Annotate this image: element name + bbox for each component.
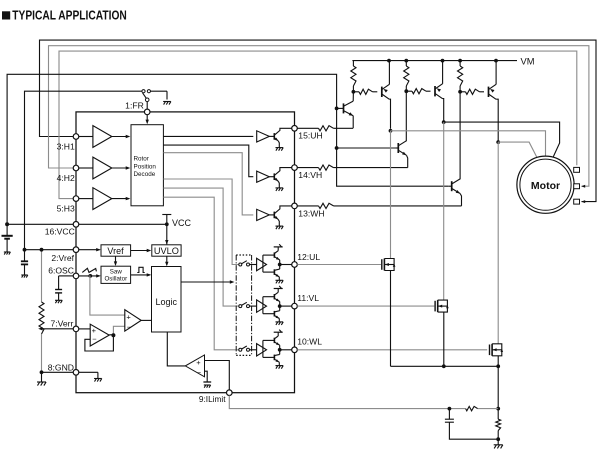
junction sense top xyxy=(496,407,500,411)
wire decode to WH driver xyxy=(163,153,253,215)
junction VL source xyxy=(442,364,446,368)
wire V phase down xyxy=(443,122,445,300)
buffer VL xyxy=(250,300,267,312)
svg-text:3:H1: 3:H1 xyxy=(57,141,75,151)
transistor Q-U-PNP xyxy=(382,61,391,129)
block UVLO xyxy=(131,245,182,256)
wire error amp to PWM xyxy=(113,326,124,335)
svg-text:14:VH: 14:VH xyxy=(298,170,322,180)
wire UL gate xyxy=(297,264,381,266)
transistor M-VL xyxy=(435,300,449,366)
op-amp PWM comparator xyxy=(125,310,152,332)
node U phase xyxy=(389,129,393,133)
transistor Q-U-NPN xyxy=(337,92,354,129)
svg-text:13:WH: 13:WH xyxy=(298,208,324,218)
node V phase xyxy=(442,120,446,124)
svg-text:11:VL: 11:VL xyxy=(297,293,319,303)
resistor R-sense xyxy=(496,409,501,445)
wire VCC bias tap V xyxy=(337,147,396,149)
switch S-FR xyxy=(142,90,167,110)
svg-text:12:UL: 12:UL xyxy=(297,252,320,262)
junction error amp out xyxy=(111,333,115,337)
svg-text:VM: VM xyxy=(521,56,535,66)
svg-text:8:GND: 8:GND xyxy=(48,362,74,372)
transistor pair WL driver xyxy=(263,330,292,369)
buffer UL xyxy=(250,258,267,270)
svg-text:4:H2: 4:H2 xyxy=(57,173,75,183)
capacitor C-filter xyxy=(445,409,498,440)
wire pin16 internal xyxy=(79,223,167,225)
resistor R-pullup-U xyxy=(351,61,356,92)
transistor pair VL driver xyxy=(263,286,292,325)
junction filter xyxy=(448,407,452,411)
svg-text:Vref: Vref xyxy=(107,246,124,256)
svg-text:9:ILimit: 9:ILimit xyxy=(199,394,226,404)
sawtooth icon at OSC xyxy=(82,268,96,272)
wire OSC pin to saw xyxy=(79,274,101,277)
wire 13:WH to QW xyxy=(297,203,461,208)
wire Vref to Saw xyxy=(114,256,117,266)
svg-text:−: − xyxy=(127,322,132,331)
resistor R-pullup-W xyxy=(458,61,463,92)
wire U phase down xyxy=(390,131,392,259)
wire VCC to UVLO arrow xyxy=(165,240,168,245)
wire FR to decoder xyxy=(146,115,149,125)
svg-text:TYPICAL APPLICATION: TYPICAL APPLICATION xyxy=(12,8,127,23)
switch S-UL xyxy=(239,261,250,266)
title block xyxy=(2,8,127,23)
op-amp A3 xyxy=(79,188,131,210)
pin 10:WL xyxy=(292,336,323,352)
transistor M-WL xyxy=(490,344,504,367)
svg-text:Saw: Saw xyxy=(110,268,123,275)
pin 6:OSC xyxy=(48,265,79,278)
svg-text:Motor: Motor xyxy=(531,180,560,192)
switch S-WL xyxy=(239,346,250,351)
wire error amp feedback xyxy=(85,335,114,351)
svg-text:7:Verr: 7:Verr xyxy=(50,318,73,328)
wire 14:VH to QV xyxy=(297,165,407,170)
node W phase xyxy=(496,140,500,144)
wire OSC to PWM comparator xyxy=(90,276,125,315)
wire GND pin to pot xyxy=(42,371,74,373)
pin 3:H1 xyxy=(57,134,79,152)
wire source bus xyxy=(391,365,499,367)
ground sense xyxy=(494,445,503,449)
transistor Q-V-PNP xyxy=(435,61,444,122)
wire decode to UL switch xyxy=(163,179,238,265)
svg-text:−: − xyxy=(197,368,202,377)
wire saw to logic xyxy=(131,273,152,276)
wire H2 feedback net xyxy=(49,46,589,188)
transistor Q-W-PNP xyxy=(489,61,499,142)
junction V predrive xyxy=(404,89,408,93)
wire W phase to motor xyxy=(498,142,538,160)
level shift box (dash-dot) xyxy=(236,255,251,355)
junction VCC internal xyxy=(165,222,169,226)
op-amp error amp xyxy=(79,324,109,346)
wire decode to WL switch xyxy=(163,197,238,350)
VM rail xyxy=(352,56,534,66)
junction pot bottom xyxy=(40,370,44,374)
capacitor C-Vref xyxy=(21,250,28,278)
wire decode to VL switch xyxy=(163,188,238,306)
wire VL gate xyxy=(297,305,434,307)
pin 9:ILimit xyxy=(199,390,232,404)
motor terminal T1 xyxy=(574,167,580,172)
junction U predrive xyxy=(352,90,356,94)
junction VM x496 xyxy=(494,59,498,63)
svg-text:10:WL: 10:WL xyxy=(297,336,322,346)
junction OSC node xyxy=(88,274,92,278)
driver WH xyxy=(257,206,292,229)
wire decode to VH driver xyxy=(163,145,253,177)
junction sense bottom xyxy=(496,437,500,441)
ground pot xyxy=(37,372,46,385)
wire H3 feedback net xyxy=(59,51,577,199)
wire 15:UH to QU xyxy=(297,126,353,131)
block Rotor Position Decode xyxy=(131,125,163,206)
resistor R-base-W xyxy=(460,89,484,94)
motor terminal T2 xyxy=(574,184,580,189)
svg-text:6:OSC: 6:OSC xyxy=(48,265,74,275)
pin 13:WH xyxy=(292,203,325,218)
resistor R-pullup-V xyxy=(404,61,409,92)
driver UH xyxy=(257,128,292,150)
svg-text:1:FR: 1:FR xyxy=(125,101,144,111)
svg-text:Osillator: Osillator xyxy=(104,276,127,283)
wire Verr wiper xyxy=(38,327,73,330)
capacitor C-OSC xyxy=(55,276,73,303)
VCC terminal xyxy=(162,215,191,245)
pin 1:FR xyxy=(125,101,150,115)
op-amp A2 xyxy=(79,157,131,179)
wire logic to level shift xyxy=(181,280,234,283)
wire WL gate xyxy=(297,349,487,351)
transistor Q-V-NPN xyxy=(395,141,408,168)
transistor Q-W-NPN xyxy=(448,179,461,206)
wire climit plus input xyxy=(205,361,230,390)
junction VM x460.1 xyxy=(458,59,462,63)
transistor M-UL xyxy=(382,259,396,367)
pulse icon at saw out xyxy=(137,267,144,272)
junction WL source xyxy=(496,364,500,368)
svg-text:5:H3: 5:H3 xyxy=(57,204,75,214)
pin 11:VL xyxy=(292,293,320,309)
wire VCC net xyxy=(7,74,448,224)
reference cell at climit minus xyxy=(203,371,211,388)
pin 7:Verr xyxy=(50,318,78,331)
block Saw Oscillator xyxy=(101,266,131,283)
pin 5:H3 xyxy=(57,196,79,214)
svg-text:16:VCC: 16:VCC xyxy=(45,227,75,237)
svg-text:−: − xyxy=(92,334,97,343)
junction VM x389 xyxy=(387,59,391,63)
transistor pair UL driver xyxy=(263,244,292,283)
wire W predrive drop xyxy=(459,92,461,179)
pin 14:VH xyxy=(292,165,322,180)
pin 8:GND xyxy=(48,362,79,375)
potentiometer VR1 xyxy=(39,248,44,372)
wire W phase down xyxy=(497,142,499,344)
op-amp A1 xyxy=(79,126,131,148)
motor M1 xyxy=(517,156,574,213)
op-amp current limit comparator xyxy=(185,355,204,377)
junction Vref left xyxy=(23,248,27,252)
svg-text:+: + xyxy=(126,313,131,322)
ground FR xyxy=(163,102,171,105)
wire H1 feedback net xyxy=(40,40,597,203)
wire Vref to FR switch xyxy=(25,91,142,250)
svg-text:UVLO: UVLO xyxy=(154,246,179,256)
switch S-VL xyxy=(239,302,250,307)
junction W predrive xyxy=(458,90,462,94)
internal ground at GND pin xyxy=(79,372,102,381)
pin 4:H2 xyxy=(57,165,79,183)
svg-text:+: + xyxy=(196,358,201,367)
wire V phase to motor xyxy=(444,122,560,158)
block Vref xyxy=(79,245,131,256)
resistor R-base-U xyxy=(353,89,377,94)
svg-text:Position: Position xyxy=(134,163,157,170)
wire ILimit to sense xyxy=(229,396,449,409)
wire decode to UH driver xyxy=(163,135,253,137)
svg-text:Logic: Logic xyxy=(155,297,177,307)
pin 15:UH xyxy=(292,126,323,141)
wire V predrive drop xyxy=(405,91,407,141)
wire UVLO to Logic xyxy=(165,256,168,266)
junction VM x406.3 xyxy=(404,59,408,63)
block Logic xyxy=(152,267,182,333)
junction bias U xyxy=(335,107,339,111)
resistor R-base-V xyxy=(406,89,430,94)
IC body U1 xyxy=(76,112,295,393)
capacitor C-VCC xyxy=(2,224,13,254)
wire U phase to motor xyxy=(391,131,546,156)
junction VCC left xyxy=(5,222,9,226)
svg-text:VCC: VCC xyxy=(172,218,192,228)
wire sense drop xyxy=(497,366,499,408)
svg-text:Rotor: Rotor xyxy=(134,156,149,163)
svg-text:Decode: Decode xyxy=(134,171,156,178)
buffer WL xyxy=(250,344,267,356)
svg-text:15:UH: 15:UH xyxy=(298,131,322,141)
resistor R-filter xyxy=(449,406,498,410)
pin 12:UL xyxy=(292,252,321,267)
junction bias V xyxy=(335,146,339,150)
junction VM x442.5 xyxy=(441,59,445,63)
pin 16:VCC xyxy=(45,222,79,237)
driver VH xyxy=(257,168,292,191)
svg-text:2:Vref: 2:Vref xyxy=(51,253,74,263)
wire logic to climit xyxy=(167,332,185,366)
pin 2:Vref xyxy=(51,247,78,263)
motor terminal T3 xyxy=(574,199,580,204)
